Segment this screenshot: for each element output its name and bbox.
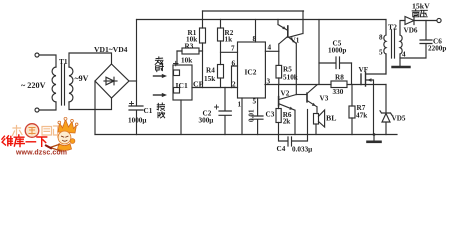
IC1 receiver box — [173, 65, 192, 100]
resistor R8 — [331, 81, 347, 88]
label 收 — [158, 112, 165, 118]
svg-text:4: 4 — [268, 44, 272, 52]
signal arrow emit — [154, 75, 163, 77]
VF source arrow — [367, 78, 372, 82]
VCC drop wire — [318, 20, 320, 85]
resistor R6 — [276, 109, 281, 123]
ground symbol — [373, 135, 375, 141]
C5 to gate node lead — [351, 63, 353, 85]
text labels inserted below — [21, 2, 446, 154]
svg-text:2200p: 2200p — [428, 45, 446, 53]
svg-text:T1: T1 — [59, 57, 68, 66]
pin6 wire — [232, 66, 238, 88]
capacitor C1 — [129, 106, 143, 135]
svg-text:www.dzsc.com: www.dzsc.com — [15, 150, 67, 157]
C2 plus sign — [215, 105, 219, 109]
R1 leads — [202, 11, 204, 88]
svg-text:0.033μ: 0.033μ — [292, 146, 312, 154]
svg-text:VF: VF — [359, 66, 369, 74]
C1 plus sign — [130, 102, 134, 106]
VF source lead — [366, 80, 374, 135]
resistor R7 — [349, 106, 355, 118]
svg-text:1000μ: 1000μ — [128, 117, 146, 125]
R4 bottom lead — [220, 78, 222, 88]
svg-text:6: 6 — [232, 60, 236, 68]
svg-text:V3: V3 — [320, 95, 329, 103]
svg-text:VD5: VD5 — [392, 115, 406, 123]
label 射 — [156, 65, 164, 72]
svg-text:1000p: 1000p — [328, 47, 346, 55]
label 发 (emit) — [155, 57, 163, 65]
crown dots — [58, 117, 78, 125]
IC1 plus sign — [174, 61, 179, 66]
svg-text:T2: T2 — [388, 23, 397, 32]
transistor V3 — [306, 93, 308, 102]
top VCC rail — [137, 19, 387, 21]
wire V1/V2 collector to V3 base — [296, 94, 306, 96]
HV output terminal — [437, 18, 441, 22]
wire VCC corner — [136, 20, 138, 107]
svg-text:CP: CP — [193, 80, 204, 89]
transistor V1 — [287, 26, 289, 37]
svg-text:15k: 15k — [204, 75, 215, 83]
T2 core — [392, 30, 395, 58]
pin4 wire — [265, 50, 278, 52]
svg-text:~9V: ~9V — [75, 74, 89, 83]
capacitor C4 below rail — [279, 135, 308, 147]
svg-text:V2: V2 — [281, 90, 290, 98]
capacitor C6 — [400, 21, 432, 59]
svg-text:8: 8 — [379, 34, 383, 42]
IC1 emitter window — [174, 70, 180, 76]
mascot ear bun — [70, 139, 75, 144]
svg-text:47k: 47k — [356, 112, 367, 120]
resistor R2 — [218, 28, 224, 41]
transformer T2 primary — [384, 35, 386, 54]
pin3 output wire — [265, 84, 331, 86]
resistor R1 — [200, 28, 206, 43]
svg-text:1: 1 — [238, 101, 242, 109]
svg-text:8: 8 — [253, 35, 257, 43]
svg-text:300μ: 300μ — [199, 117, 214, 125]
mascot arm with brush — [50, 145, 61, 152]
watermark red circle badge — [25, 124, 39, 138]
svg-text:~ 220V: ~ 220V — [21, 81, 46, 90]
R6 leads — [278, 106, 280, 135]
capacitor C2 — [219, 88, 231, 135]
svg-text:C4: C4 — [277, 145, 286, 153]
svg-text:IC1: IC1 — [176, 81, 188, 90]
label 接 (receive) — [157, 103, 164, 110]
wire BL branch — [307, 110, 309, 135]
svg-text:VD6: VD6 — [404, 27, 418, 35]
svg-text:7: 7 — [231, 45, 235, 53]
label 压 (voltage) — [420, 10, 427, 16]
pin1 ground lead — [241, 98, 243, 135]
MOSFET VF channel bar — [365, 73, 367, 87]
HV output wire — [414, 20, 437, 22]
ground bar T2 — [393, 66, 410, 68]
BL ground lead — [315, 124, 317, 135]
T2 primary lead bottom — [385, 54, 387, 74]
wire R8 to gate node — [347, 84, 386, 86]
svg-text:510k: 510k — [283, 74, 298, 82]
IC1 receiver window — [174, 88, 180, 94]
R7 leads — [351, 85, 353, 135]
wire bridge minus to ground rail — [94, 81, 96, 135]
signal arrow receive — [154, 94, 163, 96]
V2 emitter arrow — [289, 107, 293, 110]
capacitor C5 — [319, 57, 352, 69]
V1 emitter arrow — [282, 26, 286, 29]
transistor V2 — [278, 85, 280, 97]
IC1 ground lead — [180, 100, 182, 135]
svg-text:4: 4 — [402, 51, 406, 59]
wire bridge plus — [129, 80, 137, 82]
svg-text:IC2: IC2 — [245, 68, 257, 77]
svg-text:3: 3 — [267, 78, 271, 86]
VF drain lead — [366, 54, 386, 74]
transformer T2 secondary — [400, 35, 402, 54]
transformer T1 secondary — [69, 67, 73, 102]
pin7 wire — [221, 51, 238, 53]
zener diode VD5 — [380, 85, 392, 135]
svg-text:R4: R4 — [206, 67, 215, 75]
svg-text:R3: R3 — [185, 43, 194, 51]
pin8 lead — [255, 20, 257, 43]
T2 secondary top lead — [400, 21, 405, 36]
IC1 VCC lead — [176, 51, 178, 65]
svg-text:5: 5 — [253, 98, 257, 106]
svg-text:BL: BL — [326, 114, 336, 123]
mascot eyes and mouth — [62, 136, 69, 141]
bottom ground rail — [95, 134, 397, 136]
wire — [39, 55, 56, 67]
R2 leads — [220, 20, 222, 65]
capacitor C3 — [252, 116, 263, 135]
resistor R5 — [276, 65, 282, 78]
wire — [39, 102, 56, 110]
label 高 (high) — [412, 9, 419, 16]
svg-text:10k: 10k — [181, 57, 192, 65]
pin5 lead — [257, 98, 259, 116]
svg-text:10k: 10k — [186, 36, 197, 44]
IC2 555 box — [238, 42, 266, 98]
svg-text:VD1~VD4: VD1~VD4 — [94, 45, 128, 54]
svg-text:C1: C1 — [144, 107, 153, 115]
transformer T1 primary — [52, 67, 56, 102]
svg-text:2k: 2k — [283, 118, 291, 126]
speaker BL — [314, 114, 319, 125]
svg-text:5: 5 — [379, 49, 383, 57]
svg-text:0.01: 0.01 — [247, 109, 255, 122]
mascot face — [58, 131, 71, 144]
svg-text:330: 330 — [333, 88, 344, 96]
MOSFET VF gate bar — [360, 74, 362, 85]
AC input terminal bottom — [35, 108, 39, 112]
faded watermark caption — [13, 126, 63, 138]
T2 secondary bottom lead — [399, 54, 401, 66]
resistor R4 — [218, 65, 224, 79]
mascot body — [58, 144, 72, 151]
svg-text:R8: R8 — [335, 74, 344, 82]
svg-text:C3: C3 — [266, 111, 275, 119]
transformer T1 core — [62, 64, 65, 105]
wire secondary bottom to bridge — [69, 98, 112, 110]
top rail A — [203, 10, 304, 12]
wire secondary top to bridge — [69, 53, 112, 67]
V3 emitter arrow — [312, 103, 316, 106]
svg-text:15kV: 15kV — [412, 2, 430, 11]
svg-text:R5: R5 — [283, 66, 292, 74]
diode VD6 — [405, 17, 414, 25]
resistor R3 — [182, 48, 199, 54]
svg-text:V1: V1 — [291, 37, 300, 45]
CP wire to pin2 — [192, 87, 238, 89]
svg-text:1k: 1k — [225, 36, 233, 44]
watermark text 维库一下 — [2, 135, 47, 147]
mascot crown — [58, 120, 77, 134]
R3 leads — [177, 50, 203, 52]
svg-text:2: 2 — [232, 81, 236, 89]
T2 primary lead top — [385, 20, 387, 36]
bridge rectifier VD1-VD4 diamond — [95, 64, 129, 98]
R5 leads — [278, 51, 280, 84]
AC input terminal top — [35, 53, 39, 57]
bridge inner diode — [104, 80, 117, 82]
